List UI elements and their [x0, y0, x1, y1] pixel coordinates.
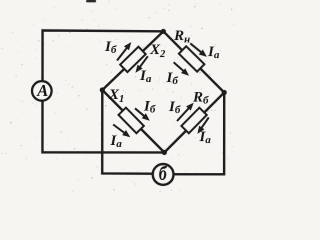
wire arm X1 bottom-left — [102, 90, 164, 152]
svg-text:б: б — [159, 162, 168, 184]
arrow Ib on Rn arm — [174, 62, 189, 76]
arrow Ib on Rb arm — [177, 103, 194, 121]
resistor X1 — [119, 108, 144, 134]
battery B — [153, 162, 174, 185]
resistor Rb — [181, 108, 206, 134]
node bottom junction dot — [162, 150, 167, 155]
wire arm X2 top-left — [102, 31, 163, 90]
wire arm Rn top-right — [163, 31, 224, 92]
arrow Ia on Rn arm — [190, 43, 207, 57]
node X1 junction dot (left) — [100, 87, 105, 92]
wire arm Rb bottom-right — [164, 92, 224, 152]
arrow Ib on X2 arm — [117, 42, 131, 60]
wire battery left: left node down then right — [102, 90, 153, 174]
resistor Rn — [179, 46, 205, 71]
node X2 junction dot (top) — [161, 29, 166, 34]
ammeter A — [32, 81, 52, 101]
wire ammeter top: corner to top node — [43, 30, 164, 81]
resistor X2 — [120, 47, 146, 72]
arrow Ia on Rb arm — [197, 117, 208, 134]
node Rb junction dot (right) — [222, 90, 227, 95]
paper background — [0, 0, 235, 193]
svg-text:A: A — [36, 81, 48, 100]
wire battery right: right node down then left — [174, 92, 225, 174]
arrow Ib on X1 arm — [135, 108, 150, 121]
arrow Ia on X1 arm — [113, 124, 130, 137]
stray mark top edge — [86, 0, 96, 2]
wire ammeter bottom: circle to bottom node — [42, 100, 164, 152]
arrow Ia on X2 arm — [135, 56, 147, 73]
